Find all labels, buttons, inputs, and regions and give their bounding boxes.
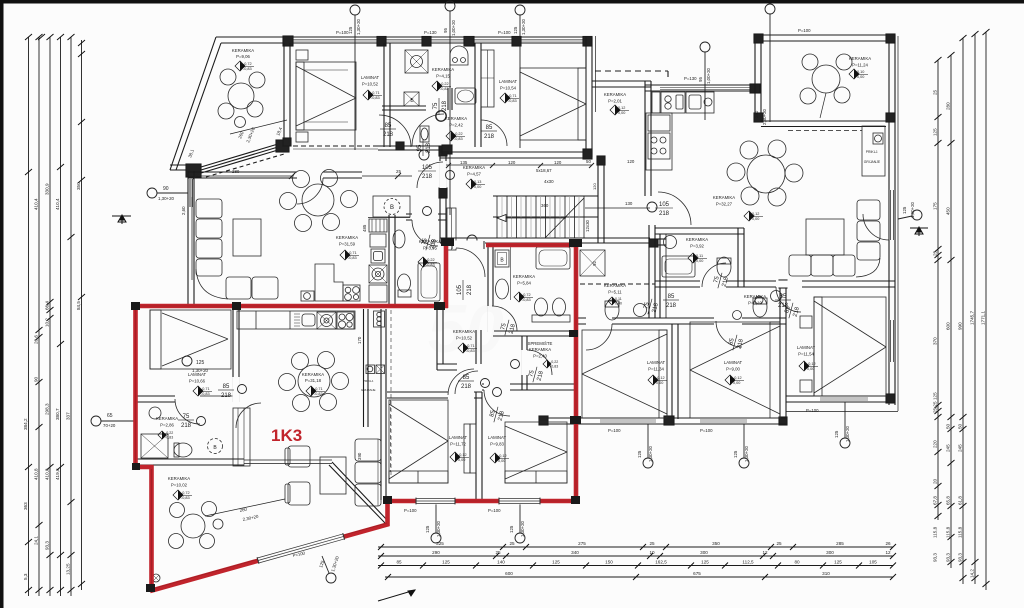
svg-text:10,2: 10,2	[45, 318, 50, 327]
svg-text:P=100: P=100	[608, 428, 621, 433]
svg-text:218: 218	[666, 303, 677, 309]
svg-text:290: 290	[432, 550, 440, 555]
stairs break line	[545, 198, 584, 238]
svg-text:370: 370	[933, 337, 938, 345]
svg-text:140: 140	[497, 560, 505, 565]
right apt bath fixtures	[662, 256, 695, 277]
svg-text:95: 95	[417, 144, 423, 151]
svg-text:0,11: 0,11	[696, 254, 703, 258]
svg-text:0,00: 0,00	[498, 459, 505, 463]
middle apt bath basin	[634, 304, 647, 317]
right apt east wall	[888, 122, 890, 405]
entrance door gap	[449, 241, 485, 249]
svg-text:26: 26	[885, 541, 891, 546]
svg-text:218: 218	[659, 211, 670, 217]
right apt kitchen appliances	[652, 92, 660, 113]
window west wall thin	[190, 179, 192, 207]
window east wall thin	[890, 320, 894, 362]
red wall south step	[385, 499, 390, 526]
svg-text:2,60: 2,60	[181, 206, 186, 215]
svg-text:95: 95	[698, 77, 703, 82]
svg-text:125: 125	[701, 560, 709, 565]
svg-text:360: 360	[541, 203, 549, 208]
left dim labels	[23, 182, 81, 580]
svg-text:KERAMIKA: KERAMIKA	[445, 116, 467, 121]
svg-text:-0,83: -0,83	[243, 67, 252, 71]
red wall west upper	[133, 304, 138, 469]
svg-text:61,8: 61,8	[958, 496, 963, 505]
1K3 sofa small	[355, 439, 381, 461]
long wall y172-178	[188, 171, 362, 173]
A triangle right	[910, 227, 928, 236]
svg-text:-0,83: -0,83	[314, 392, 323, 396]
level symbols	[158, 61, 868, 500]
svg-text:-0,72: -0,72	[522, 293, 531, 297]
svg-text:P=3,10: P=3,10	[748, 301, 762, 306]
terrace column E	[276, 140, 289, 152]
svg-text:990: 990	[958, 322, 963, 330]
svg-text:1,30+20: 1,30+20	[436, 520, 441, 537]
svg-text:13,25: 13,25	[66, 563, 71, 575]
red wall diagonal	[150, 524, 389, 591]
svg-text:-0,71: -0,71	[508, 94, 517, 98]
svg-text:12x30: 12x30	[585, 219, 590, 232]
svg-text:125: 125	[933, 128, 938, 136]
red inner thin white core	[136, 245, 577, 589]
svg-text:P=9,83: P=9,83	[490, 442, 504, 447]
upper living sofa	[192, 197, 278, 299]
washbasin bath1	[450, 46, 468, 65]
window openings in red south wall	[416, 498, 540, 505]
terrace top-left: bottom edge	[170, 169, 190, 171]
right dimension line 2	[950, 55, 952, 568]
svg-text:-0,83: -0,83	[508, 99, 517, 103]
svg-text:0,00: 0,00	[696, 259, 703, 263]
wardrobe bed2	[481, 50, 494, 107]
svg-text:675: 675	[693, 571, 701, 576]
svg-text:105: 105	[659, 202, 670, 208]
svg-text:P=130: P=130	[684, 76, 697, 81]
svg-text:90: 90	[34, 376, 39, 382]
terrace top-left: outer slant wall	[170, 37, 216, 170]
svg-text:1745,7: 1745,7	[970, 311, 975, 325]
hall west wall	[436, 305, 438, 370]
svg-text:65: 65	[107, 413, 113, 419]
middle apt bath east wall	[659, 234, 661, 318]
svg-text:85: 85	[784, 305, 792, 314]
svg-text:93,3: 93,3	[45, 541, 50, 550]
svg-text:125: 125	[834, 430, 839, 438]
svg-text:120: 120	[508, 160, 516, 165]
svg-text:125: 125	[552, 560, 560, 565]
upper bath toilet	[398, 274, 411, 292]
svg-text:280: 280	[754, 110, 759, 118]
ref circles top	[91, 1, 922, 583]
upper bath tub	[418, 263, 440, 301]
svg-text:105: 105	[422, 165, 433, 171]
window P labels	[292, 28, 819, 558]
red wall west lower	[149, 465, 154, 592]
boiler closet upper apt	[373, 196, 410, 217]
stair hall east wall	[597, 157, 599, 243]
right dimension line 1	[937, 60, 939, 520]
svg-text:218: 218	[221, 393, 232, 399]
right apt bath walls	[655, 227, 744, 229]
red wall right upper	[444, 241, 449, 308]
door gap mid bedA	[586, 318, 612, 325]
bedroomB north wall	[482, 383, 576, 385]
1K3 coffee table	[320, 457, 346, 494]
svg-text:95: 95	[443, 28, 448, 33]
terrace drain circle	[152, 574, 160, 582]
middle apt corridor dashed	[580, 283, 655, 285]
svg-text:150: 150	[605, 560, 613, 565]
west wall bed1	[283, 43, 285, 146]
svg-text:0,00: 0,00	[474, 185, 481, 189]
svg-text:218: 218	[722, 276, 731, 288]
stair dim line	[446, 163, 650, 208]
1K3 armchairs	[288, 446, 310, 467]
wardrobe between beds	[470, 424, 476, 473]
svg-text:125: 125	[933, 392, 938, 400]
middle apt south wall	[540, 417, 786, 419]
svg-text:-0,22: -0,22	[440, 82, 449, 86]
right dim labels	[933, 89, 986, 578]
svg-text:218: 218	[509, 323, 518, 335]
svg-text:P=2,42: P=2,42	[449, 123, 463, 128]
svg-text:600: 600	[505, 571, 513, 576]
svg-text:105: 105	[869, 560, 877, 565]
left dimension line 4	[60, 37, 62, 596]
svg-text:390: 390	[357, 452, 362, 460]
1K3 bed1	[150, 310, 231, 369]
svg-text:SPREMIŠTE: SPREMIŠTE	[528, 341, 553, 346]
svg-text:P=10,02: P=10,02	[171, 483, 188, 488]
svg-text:218: 218	[652, 302, 661, 314]
svg-text:P=3,92: P=3,92	[690, 244, 704, 249]
svg-text:KERAMIKA: KERAMIKA	[336, 235, 358, 240]
svg-text:-0,83: -0,83	[371, 96, 380, 100]
left dimension line 5	[70, 37, 72, 596]
svg-text:-0,83: -0,83	[426, 263, 435, 267]
1K3 strip: corridor/bath divider	[487, 245, 489, 332]
svg-text:-0,12: -0,12	[656, 376, 665, 380]
1K3 dining table	[298, 365, 330, 397]
right apt bedroom south wall	[786, 395, 895, 397]
svg-text:KERAMIKA: KERAMIKA	[604, 283, 626, 288]
svg-text:26,6: 26,6	[34, 335, 39, 344]
B letters	[213, 98, 504, 451]
red wall west step	[134, 465, 153, 470]
svg-text:-0,71: -0,71	[348, 251, 357, 255]
upper kitchen stove	[343, 285, 360, 301]
red wall top	[133, 304, 448, 309]
right apt kitchen north wall	[645, 84, 761, 86]
svg-text:P=2,40: P=2,40	[533, 354, 547, 359]
svg-text:1771,1: 1771,1	[981, 311, 986, 325]
svg-text:275: 275	[578, 541, 586, 546]
hall stub wall	[475, 330, 477, 364]
svg-text:-0,83: -0,83	[348, 256, 357, 260]
svg-text:218: 218	[426, 142, 432, 153]
svg-text:P=100: P=100	[498, 30, 511, 35]
svg-text:245: 245	[958, 444, 963, 452]
spremiste west wall	[521, 336, 523, 390]
bedroom divider wall right	[779, 287, 781, 425]
svg-text:85: 85	[463, 375, 470, 381]
svg-text:93,3: 93,3	[946, 553, 951, 562]
bed1/bath south wall	[134, 395, 200, 397]
tick marks left cluster	[25, 34, 85, 593]
svg-text:1,30+20: 1,30+20	[356, 18, 361, 35]
east wall upper-left block	[585, 37, 587, 157]
svg-text:5x18,67: 5x18,67	[536, 168, 552, 173]
1K3 water heater	[374, 311, 385, 327]
1K3 bath boiler	[495, 250, 509, 267]
svg-text:175: 175	[933, 202, 938, 210]
svg-text:LAMINAT: LAMINAT	[499, 79, 518, 84]
bottom dim labels	[396, 541, 891, 576]
svg-text:280: 280	[946, 102, 951, 110]
bottom dimension line 2	[378, 555, 893, 557]
stair hall bottom wall	[440, 237, 650, 239]
red wall entrance top	[486, 243, 578, 248]
svg-text:80: 80	[794, 560, 800, 565]
hall south-west wall	[437, 363, 457, 365]
svg-text:KERAMIKA: KERAMIKA	[168, 476, 190, 481]
svg-text:P=100: P=100	[488, 508, 501, 513]
1K3 basin	[496, 279, 509, 299]
svg-text:1,30+20: 1,30+20	[520, 520, 525, 537]
svg-text:410,8: 410,8	[45, 468, 50, 480]
svg-text:24,1: 24,1	[34, 536, 39, 545]
svg-text:310: 310	[822, 571, 830, 576]
svg-text:P=130: P=130	[424, 30, 437, 35]
dashed line bedA	[390, 400, 392, 472]
1K3 bedA bed	[389, 400, 448, 483]
upper kitchen/bath divider	[388, 215, 390, 305]
svg-text:125: 125	[348, 26, 353, 34]
terrace railing slanted	[201, 147, 278, 170]
svg-text:1,30+20: 1,30+20	[521, 18, 526, 35]
svg-text:P=10,52: P=10,52	[362, 82, 379, 87]
svg-text:90: 90	[163, 186, 169, 192]
svg-text:0,11: 0,11	[615, 297, 622, 301]
svg-text:KERAMIKA: KERAMIKA	[713, 195, 735, 200]
page border left	[0, 0, 4, 608]
svg-text:2,30+20: 2,30+20	[762, 108, 767, 125]
svg-text:P=10,54: P=10,54	[500, 86, 517, 91]
bottom dimension line 1	[378, 546, 893, 548]
svg-text:125: 125	[509, 525, 514, 533]
svg-text:25: 25	[649, 541, 655, 546]
svg-text:P=2,86: P=2,86	[160, 423, 174, 428]
window opening in red diagonal	[257, 533, 345, 564]
middle block north wall	[592, 80, 651, 82]
bedroom A/B divider	[475, 392, 477, 500]
svg-text:125: 125	[902, 206, 907, 214]
bed 1 upper apt	[296, 62, 356, 130]
red wall south	[386, 499, 578, 504]
svg-text:2,30+20: 2,30+20	[245, 126, 256, 143]
terrace TL table	[228, 83, 254, 109]
svg-text:-0,12: -0,12	[733, 376, 742, 380]
svg-text:P=100: P=100	[700, 428, 713, 433]
svg-text:14,2: 14,2	[970, 569, 975, 578]
svg-text:25: 25	[776, 541, 782, 546]
svg-text:285: 285	[836, 541, 844, 546]
svg-text:75: 75	[433, 102, 439, 109]
svg-text:0,00: 0,00	[656, 381, 663, 385]
svg-text:0,00: 0,00	[733, 381, 740, 385]
svg-text:0,00: 0,00	[857, 75, 864, 79]
svg-text:-0,22: -0,22	[165, 431, 173, 435]
svg-text:125: 125	[733, 450, 738, 458]
svg-text:KERAMIKA: KERAMIKA	[529, 347, 551, 352]
svg-text:66,4: 66,4	[45, 301, 50, 310]
upper living round table	[302, 184, 334, 216]
svg-text:218: 218	[498, 410, 507, 422]
interior wall bed1/bath1	[383, 43, 385, 147]
svg-text:LAMINAT: LAMINAT	[647, 360, 666, 365]
1K3 bath toilet	[174, 443, 192, 457]
svg-text:-0,71: -0,71	[201, 387, 210, 391]
svg-text:P=31,18: P=31,18	[305, 378, 322, 383]
left dimension line 6	[81, 40, 83, 590]
svg-text:1,30+20: 1,30+20	[744, 445, 749, 462]
svg-text:1,00+20: 1,00+20	[706, 67, 711, 84]
middle apt bedB	[690, 322, 780, 418]
svg-text:-0,22: -0,22	[426, 258, 435, 262]
svg-text:410,8: 410,8	[34, 468, 39, 480]
stair treads	[497, 196, 584, 238]
svg-text:38,1: 38,1	[187, 148, 195, 158]
svg-text:218: 218	[422, 174, 433, 180]
svg-text:218: 218	[537, 370, 546, 382]
middle apt bath toilet	[605, 300, 619, 320]
top wall inner line	[221, 42, 592, 44]
1K3 heating boxes	[366, 365, 375, 374]
upper kitchen counter L	[315, 264, 343, 301]
boiler bath1	[404, 92, 419, 106]
shaft wall 1K3	[363, 309, 365, 427]
svg-text:B: B	[213, 445, 217, 451]
svg-text:300: 300	[700, 550, 708, 555]
svg-text:130: 130	[625, 201, 633, 206]
svg-text:125: 125	[442, 560, 450, 565]
bath south wall to terrace	[137, 458, 244, 460]
svg-text:0,00: 0,00	[752, 217, 759, 221]
svg-text:70+20: 70+20	[103, 423, 116, 428]
top wall columns	[283, 36, 293, 46]
spremiste north wall	[493, 330, 576, 332]
svg-text:P=100: P=100	[806, 408, 819, 413]
svg-text:25: 25	[933, 89, 938, 95]
red outline 1K3 apartment	[133, 241, 578, 592]
svg-text:120: 120	[627, 159, 635, 164]
svg-text:170: 170	[357, 336, 362, 344]
terrace TR table	[812, 65, 840, 93]
bed1 east wall	[232, 305, 234, 402]
outer offset line top-right of block	[595, 36, 597, 112]
svg-text:337: 337	[66, 412, 71, 420]
dashed shaft line	[390, 310, 392, 478]
svg-text:P=11,24: P=11,24	[852, 63, 868, 68]
door gap 1K3 bath	[175, 396, 200, 403]
svg-text:298,3: 298,3	[45, 403, 50, 415]
svg-text:0,13: 0,13	[474, 180, 481, 184]
svg-text:-0,83: -0,83	[165, 436, 173, 440]
svg-text:B: B	[500, 258, 504, 264]
svg-text:P=10,66: P=10,66	[189, 379, 206, 384]
balcony door east wall thin	[890, 190, 894, 240]
svg-text:P=100: P=100	[798, 28, 811, 33]
door gap right bath	[700, 281, 726, 288]
svg-text:P=9,06: P=9,06	[236, 54, 250, 59]
svg-text:85: 85	[486, 125, 493, 131]
svg-text:20: 20	[933, 478, 938, 484]
door fraction labels	[178, 98, 802, 429]
bedroomA north wall	[387, 391, 482, 393]
svg-text:485: 485	[362, 224, 367, 232]
svg-text:85: 85	[780, 294, 787, 300]
svg-text:125: 125	[834, 560, 842, 565]
svg-text:-0,71: -0,71	[371, 91, 380, 95]
svg-text:0,10: 0,10	[857, 70, 864, 74]
door gap right wc	[776, 281, 802, 288]
middle apt bedroom divider	[671, 324, 673, 419]
glass front diagonal	[332, 462, 388, 521]
right dimension line 5	[985, 32, 987, 590]
svg-text:KERAMIKA: KERAMIKA	[232, 48, 254, 53]
svg-text:85: 85	[396, 560, 402, 565]
interior wall bath1/wc horizontal	[382, 105, 426, 107]
svg-text:218: 218	[484, 134, 495, 140]
stair hall west wall	[439, 147, 441, 243]
svg-text:LAMINAT: LAMINAT	[188, 372, 207, 377]
svg-text:P=4,15: P=4,15	[436, 74, 450, 79]
svg-text:67,8: 67,8	[933, 496, 938, 505]
svg-text:P=11,34: P=11,34	[648, 367, 664, 372]
1K3 boiler circle dashed	[208, 439, 223, 454]
svg-text:-0,83: -0,83	[440, 87, 449, 91]
svg-text:25: 25	[933, 250, 938, 256]
svg-text:0,12: 0,12	[618, 106, 625, 110]
svg-text:-0,22: -0,22	[550, 360, 558, 364]
upper bath north wall	[406, 213, 446, 215]
svg-text:0,00: 0,00	[807, 367, 814, 371]
svg-text:363: 363	[23, 502, 28, 510]
svg-text:-0,22: -0,22	[454, 132, 463, 136]
svg-text:115,8: 115,8	[933, 526, 938, 538]
terrace top-right railing bottom	[761, 120, 886, 122]
svg-text:0,00: 0,00	[458, 458, 465, 462]
right apt dining table	[747, 155, 785, 193]
svg-text:330,9: 330,9	[45, 183, 50, 195]
svg-text:1,30+20: 1,30+20	[648, 445, 653, 462]
svg-text:1,30+20: 1,30+20	[158, 196, 175, 201]
svg-text:218: 218	[461, 384, 472, 390]
stairs mid stringer	[493, 216, 598, 218]
svg-text:380,7: 380,7	[55, 408, 60, 420]
svg-text:2,30+20: 2,30+20	[242, 514, 259, 522]
1K3 wardrobe	[233, 408, 250, 466]
svg-text:KERAMIKA: KERAMIKA	[302, 372, 324, 377]
heating box right apt	[862, 126, 885, 176]
bottom dimension line 3	[378, 565, 893, 567]
svg-text:KERAMIKA: KERAMIKA	[513, 274, 535, 279]
door gap stair west wall	[440, 161, 447, 188]
